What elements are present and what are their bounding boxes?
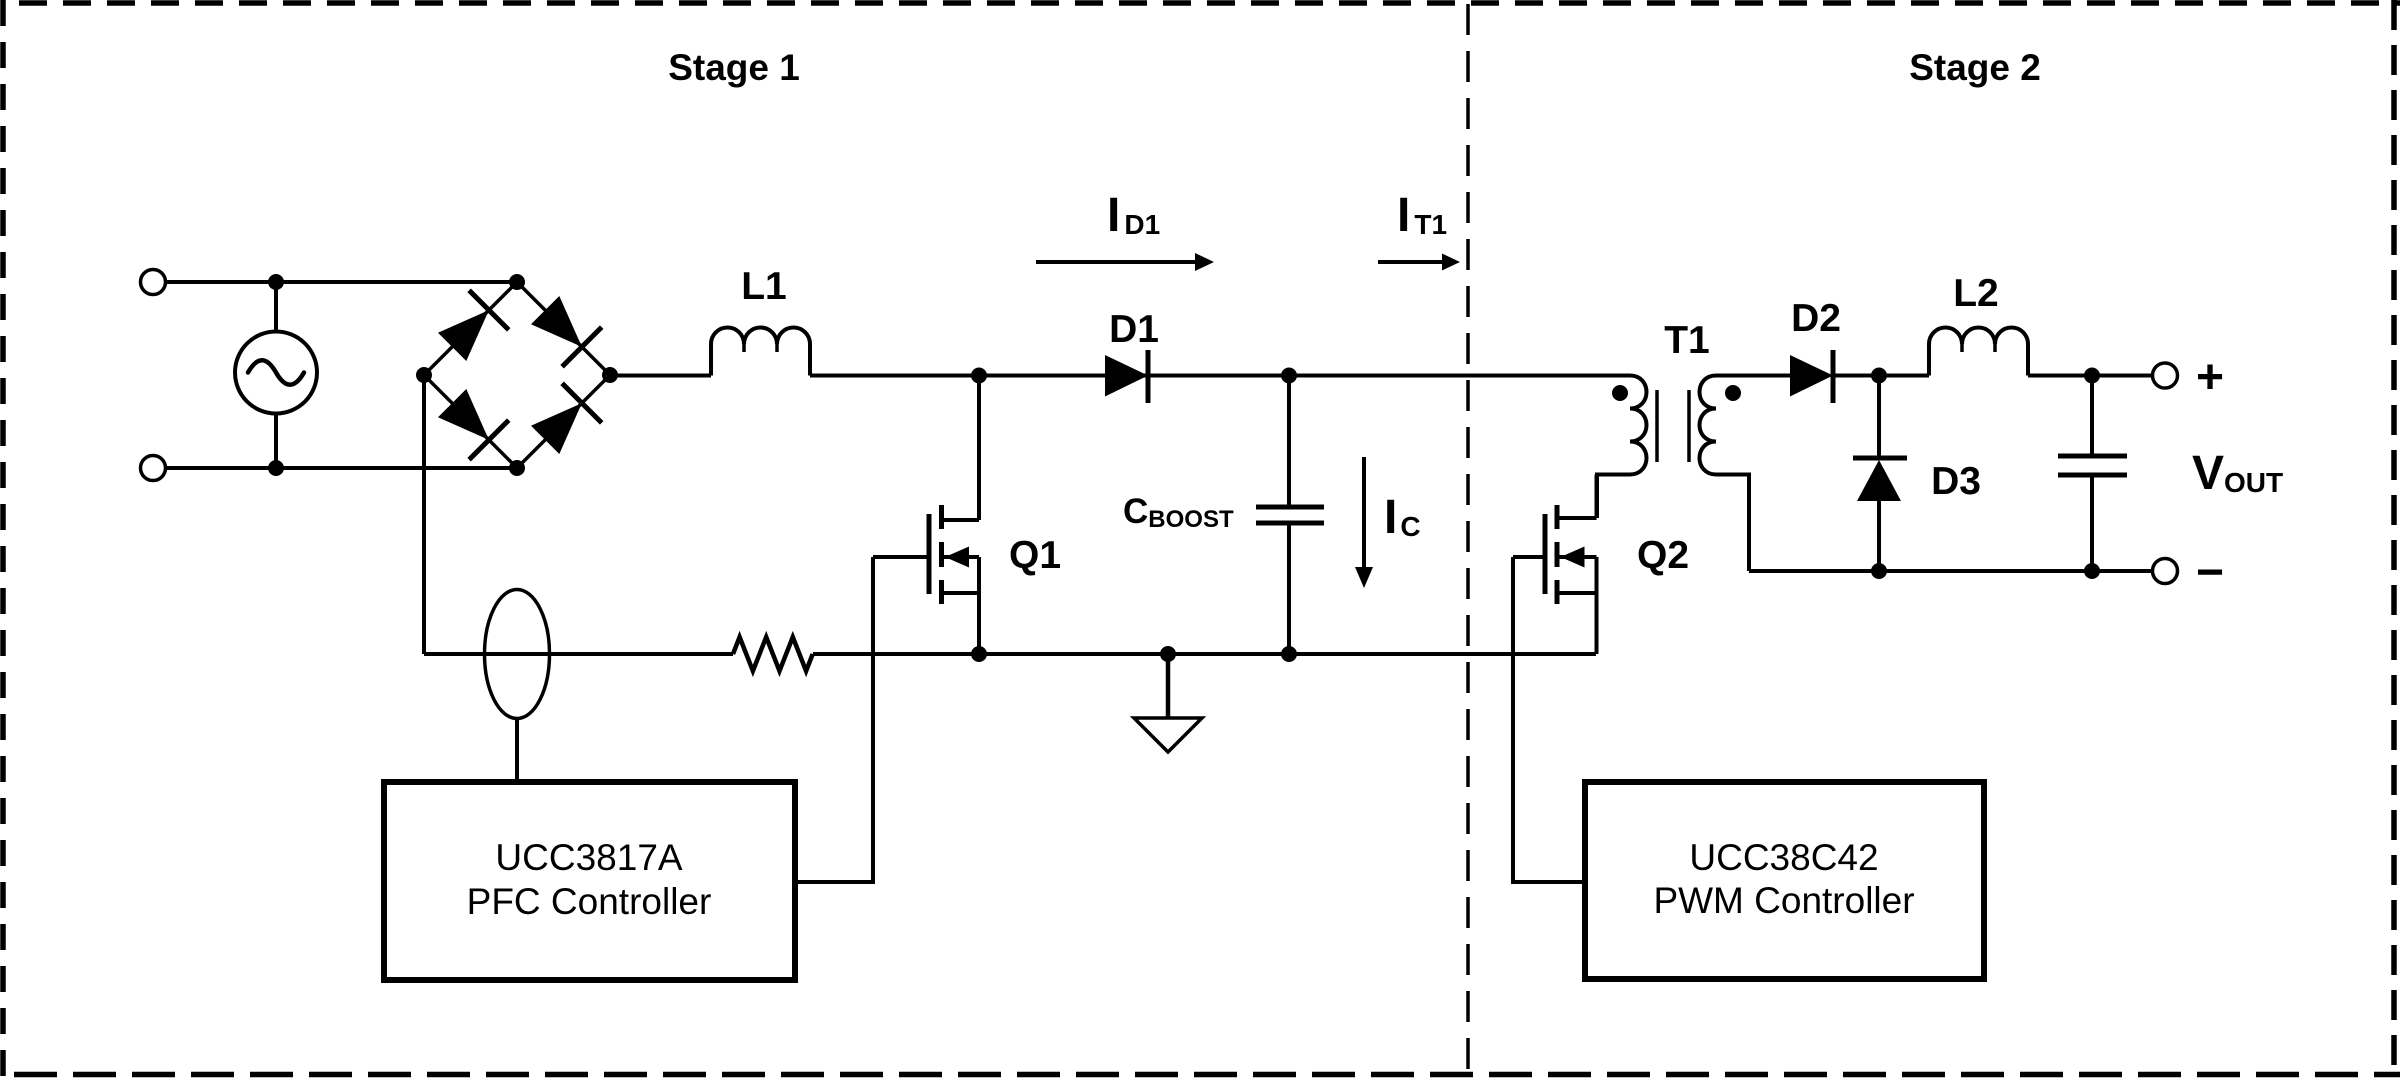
svg-text:−: − xyxy=(2196,546,2224,599)
junction Cout top xyxy=(2084,368,2100,384)
svg-text:UCC38C42: UCC38C42 xyxy=(1689,837,1878,878)
input terminal bottom xyxy=(141,456,166,481)
input terminal top xyxy=(141,270,166,295)
junction D3 bottom xyxy=(1871,563,1887,579)
junction bottom AC xyxy=(268,460,284,476)
arrow ID1 xyxy=(1036,253,1214,271)
mosfet Q2 xyxy=(1513,475,1597,655)
wire Q2 gate to PWM xyxy=(1513,557,1585,882)
wire L1 to T1 (main boost rail) xyxy=(810,374,1630,378)
bridge rectifier xyxy=(416,274,618,476)
svg-text:L1: L1 xyxy=(741,265,787,308)
junction top AC xyxy=(268,274,284,290)
svg-text:D3: D3 xyxy=(1931,460,1981,503)
bottom rail stage1 xyxy=(424,652,1596,656)
junction CBOOST top xyxy=(1281,368,1297,384)
svg-text:Stage 2: Stage 2 xyxy=(1909,47,2041,88)
svg-text:T1: T1 xyxy=(1664,319,1710,362)
transformer T1 xyxy=(1597,376,1749,572)
junction Q1 source xyxy=(971,646,987,662)
wire top input xyxy=(166,280,518,284)
output bottom rail xyxy=(1749,569,2153,573)
svg-text:Q2: Q2 xyxy=(1637,534,1689,577)
inductor L2 xyxy=(1929,328,2028,376)
svg-text:PFC Controller: PFC Controller xyxy=(467,881,712,922)
junction CBOOST bottom xyxy=(1281,646,1297,662)
junction D3 top xyxy=(1871,368,1887,384)
svg-text:Q1: Q1 xyxy=(1009,534,1061,577)
current transformer sensor xyxy=(485,590,550,719)
svg-text:+: + xyxy=(2196,351,2224,404)
wire sensor to PFC xyxy=(515,719,519,783)
capacitor Cout xyxy=(2058,376,2127,572)
wire D2 to L2 xyxy=(1833,374,1929,378)
resistor Rsense xyxy=(733,637,813,671)
svg-text:PWM Controller: PWM Controller xyxy=(1653,880,1914,921)
PFC controller box U1 xyxy=(384,782,795,980)
inductor L1 xyxy=(711,328,810,376)
svg-text:D2: D2 xyxy=(1791,297,1841,340)
stage divider dashed line xyxy=(1466,4,1470,1076)
svg-text:Stage 1: Stage 1 xyxy=(668,47,800,88)
junction Cout bottom xyxy=(2084,563,2100,579)
junction ground xyxy=(1160,646,1176,662)
wire secondary to D2 xyxy=(1716,374,1790,378)
wire bridge to L1 xyxy=(610,374,711,378)
ground xyxy=(1134,654,1202,752)
AC source xyxy=(235,282,317,468)
wire bottom input xyxy=(166,466,518,470)
capacitor CBOOST xyxy=(1256,376,1324,655)
diode D3 xyxy=(1853,376,1907,572)
mosfet Q1 xyxy=(873,376,979,655)
wire L2 to + terminal xyxy=(2028,374,2153,378)
diode D1 xyxy=(1105,350,1148,403)
svg-text:D1: D1 xyxy=(1109,308,1159,351)
junction Q1 drain xyxy=(971,368,987,384)
PWM controller box U2 xyxy=(1585,782,1984,979)
wire Q1 gate to PFC xyxy=(795,557,873,882)
svg-text:L2: L2 xyxy=(1953,272,1999,315)
svg-text:UCC3817A: UCC3817A xyxy=(495,837,682,878)
output terminal minus xyxy=(2153,559,2178,584)
arrow IT1 xyxy=(1378,254,1460,271)
diode D2 xyxy=(1790,350,1833,403)
wire bridge minus down xyxy=(422,375,426,654)
output terminal + xyxy=(2153,363,2178,388)
arrow IC xyxy=(1355,457,1373,588)
